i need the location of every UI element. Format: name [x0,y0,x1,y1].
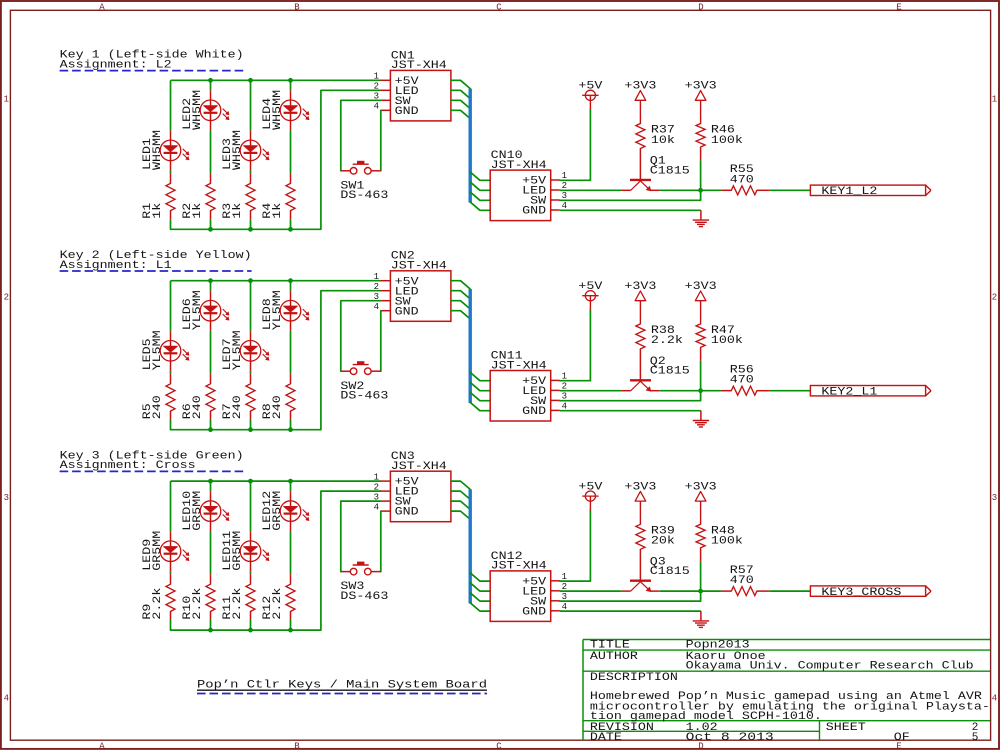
label LED1 WH5MM [142,130,164,170]
svg-text:GR5MM: GR5MM [152,531,164,571]
label R10 2.2k [182,587,204,619]
svg-text:3: 3 [992,493,997,503]
wire from bus [470,392,490,400]
svg-text:C: C [496,2,502,12]
svg-text:100k: 100k [711,335,743,347]
svg-text:YL5MM: YL5MM [192,290,204,330]
junction [698,589,703,594]
junction [288,278,293,283]
junction [288,479,293,484]
wire [170,481,172,531]
wire [770,590,811,592]
wire [210,481,212,491]
switch SW1 DS-463 [341,161,381,174]
label R2 1k [182,202,204,218]
wire [210,331,212,374]
svg-text:2.2k: 2.2k [152,587,164,619]
label R4 1k [262,202,284,218]
label SW1 DS-463 [340,180,388,202]
wire: +5V top rail [171,480,381,482]
label LED8 YL5MM [262,290,284,330]
frame column D [698,2,703,750]
label R47 100k [711,325,743,347]
svg-text:1: 1 [992,95,997,105]
wire to bus [451,491,470,499]
wire to bus [451,311,470,319]
wire from bus [470,182,490,190]
wire from bus [470,593,490,601]
wire from bus [470,603,490,611]
svg-text:JST-XH4: JST-XH4 [491,160,547,172]
title block outline [583,640,990,741]
wire: +5V top rail [171,280,381,282]
frame column B [294,2,300,750]
wire to bus [451,291,470,299]
wire [210,130,212,173]
wire: +5V [560,110,591,181]
wire [170,170,172,173]
wire [290,620,292,630]
supply +3V3 (collector pullup) [685,281,717,324]
supply +3V3 (base pullup) [624,81,656,124]
svg-text:YL5MM: YL5MM [152,330,164,370]
svg-text:1: 1 [4,95,9,105]
wire: SW net [341,100,381,171]
svg-text:2.2k: 2.2k [192,587,204,619]
label R56 470 [730,365,754,387]
wire: GND row [560,610,701,612]
wire from bus [470,573,490,581]
assignment dashed underline [60,470,244,472]
pin 2 [551,189,560,191]
svg-text:B: B [294,742,300,750]
wire: LED bottom rail [171,291,381,430]
wire: SW row [560,591,701,601]
junction [288,628,293,633]
label CN11 JST-XH4 [491,350,547,372]
pin 2 [551,590,560,592]
connector CN3 JST-XH4 [374,471,451,522]
wire: LED row [560,590,622,592]
svg-text:100k: 100k [711,536,743,548]
dashed underline [197,693,487,695]
wire: GND row [560,209,701,211]
switch SW3 DS-463 [341,562,381,575]
wire: output row [660,390,721,392]
junction [208,278,213,283]
svg-text:1: 1 [374,72,379,82]
label CN2 JST-XH4 [391,251,447,273]
pin 4 [381,510,391,512]
resistor R48 100k [696,524,705,561]
svg-text:Assignment: Cross: Assignment: Cross [60,460,196,472]
wire [250,219,252,229]
resistor R1 1k [166,173,175,219]
svg-text:240: 240 [192,395,204,419]
wire [290,481,292,491]
wire [170,80,172,130]
wire to bus [451,481,470,489]
svg-text:JST-XH4: JST-XH4 [391,461,447,473]
svg-text:100k: 100k [711,135,743,147]
label SW2 DS-463 [340,381,388,403]
svg-text:A: A [99,2,105,12]
svg-text:AUTHOR: AUTHOR [590,651,638,663]
svg-text:DATE: DATE [590,732,622,744]
wire: SW row [560,391,701,401]
resistor R56 470 (series output) [721,386,770,395]
label SW3 DS-463 [340,581,388,603]
svg-text:DESCRIPTION: DESCRIPTION [590,672,678,684]
pin 1 [381,79,391,81]
svg-text:2: 2 [374,482,379,492]
svg-text:4: 4 [992,694,997,704]
frame row 2 [4,293,998,303]
resistor R2 1k [206,173,215,219]
wire [700,561,702,591]
label LED12 GR5MM [262,491,284,531]
wire [290,130,292,173]
svg-text:B: B [294,2,300,12]
svg-text:5: 5 [972,732,979,744]
supply +5V [578,81,602,110]
svg-text:YL5MM: YL5MM [232,330,244,370]
resistor R46 100k [696,124,705,161]
resistor R39 20k [636,524,645,580]
LED LED11 [240,531,269,571]
junction [248,479,253,484]
wire: +5V top rail [171,79,381,81]
label R39 20k [651,525,675,547]
wire [250,371,252,374]
section header Key 3 (Left-side Green) [60,450,244,472]
wire: SW row [560,190,701,200]
supply +3V3 (collector pullup) [685,81,717,124]
wire [770,189,811,191]
resistor R38 2.2k [636,324,645,380]
svg-text:1: 1 [374,472,379,482]
label R9 2.2k [142,587,164,619]
LED LED9 [160,531,189,571]
frame column E [896,2,901,750]
wire [250,481,252,531]
wire [250,170,252,173]
wire [290,80,292,90]
pin 1 [381,480,391,482]
svg-text:E: E [896,2,901,12]
label Q2 C1815 [650,356,690,378]
label CN1 JST-XH4 [391,50,447,72]
label R11 2.2k [222,587,244,619]
pin 3 [551,199,560,201]
svg-text:WH5MM: WH5MM [272,90,284,130]
pin 3 [381,500,391,502]
pin 1 [551,179,560,181]
svg-text:KEY1_L2: KEY1_L2 [821,186,877,198]
svg-text:GR5MM: GR5MM [192,491,204,531]
LED LED2 [200,90,229,130]
svg-text:D: D [698,2,703,12]
junction [208,479,213,484]
wire [210,80,212,90]
pin 2 [381,89,391,91]
label R48 100k [711,525,743,547]
label LED3 WH5MM [222,130,244,170]
wire [290,531,292,574]
wire [210,219,212,229]
sheet title Pop'n Ctlr Keys / Main System Board [197,680,487,692]
svg-text:1k: 1k [272,202,284,218]
svg-text:4: 4 [4,694,9,704]
svg-text:DS-463: DS-463 [340,190,388,202]
svg-text:C1815: C1815 [650,566,690,578]
resistor R6 240 [206,374,215,420]
svg-text:1: 1 [374,272,379,282]
svg-text:1k: 1k [152,202,164,218]
LED LED12 [280,491,309,531]
svg-text:Popn2013: Popn2013 [686,640,750,652]
svg-text:2: 2 [992,293,997,303]
junction [248,427,253,432]
svg-text:4: 4 [374,102,379,112]
bus B3 [469,489,472,603]
svg-text:470: 470 [730,174,754,186]
wire from bus [470,583,490,591]
junction [208,78,213,83]
svg-text:GND: GND [395,306,419,318]
label R37 10k [651,125,675,147]
resistor R8 240 [286,374,295,420]
resistor R5 240 [166,374,175,420]
wire from bus [470,202,490,210]
wire [170,620,172,630]
svg-text:10k: 10k [651,135,675,147]
LED LED7 [240,331,269,371]
wire [210,620,212,630]
svg-text:JST-XH4: JST-XH4 [391,60,447,72]
wire: GND to switch [380,511,382,571]
wire from bus [470,402,490,410]
junction [248,628,253,633]
wire to bus [451,501,470,509]
wire [290,331,292,374]
wire: +5V [560,511,591,581]
pin 3 [381,300,391,302]
svg-text:WH5MM: WH5MM [152,130,164,170]
wire to bus [451,80,470,88]
junction [698,388,703,393]
svg-text:JST-XH4: JST-XH4 [491,360,547,372]
svg-text:DS-463: DS-463 [340,591,388,603]
wire [170,281,172,331]
wire to bus [451,100,470,108]
svg-text:GND: GND [522,206,546,218]
assignment dashed underline [60,70,244,72]
frame column A [99,2,105,750]
wire from bus [470,382,490,390]
resistor R47 100k [696,324,705,361]
svg-text:C1815: C1815 [650,366,690,378]
label Q1 C1815 [650,156,690,178]
svg-text:KEY2_L1: KEY2_L1 [821,386,877,398]
svg-text:GND: GND [395,507,419,519]
wire: GND row [560,410,701,412]
LED LED8 [280,291,309,331]
label R57 470 [730,565,754,587]
svg-text:20k: 20k [651,536,675,548]
svg-text:+5V: +5V [578,81,602,93]
wire [290,420,292,430]
svg-text:240: 240 [272,395,284,419]
connector CN11 JST-XH4 [490,371,567,422]
svg-text:GND: GND [522,606,546,618]
svg-text:3: 3 [4,493,9,503]
wire: output row [660,590,721,592]
wire [250,571,252,574]
wire [170,571,172,574]
label R46 100k [711,125,743,147]
label R7 240 [222,395,244,419]
resistor R11 2.2k [246,574,255,620]
svg-text:2.2k: 2.2k [232,587,244,619]
wire [250,420,252,430]
svg-text:240: 240 [232,395,244,419]
LED LED6 [200,291,229,331]
svg-text:GND: GND [395,106,419,118]
junction [288,78,293,83]
wire [170,219,172,229]
transistor Q1 C1815 [621,180,660,191]
svg-text:4: 4 [374,302,379,312]
label Q3 C1815 [650,556,690,578]
wire [770,390,811,392]
svg-text:WH5MM: WH5MM [232,130,244,170]
pin 3 [381,99,391,101]
label LED5 YL5MM [142,330,164,370]
wire [210,420,212,430]
section header Key 2 (Left-side Yellow) [60,250,252,272]
label R1 1k [142,202,164,218]
label LED7 YL5MM [222,330,244,370]
svg-text:+5V: +5V [578,281,602,293]
wire to bus [451,301,470,309]
pin 3 [551,399,560,401]
wire: SW net [341,501,381,571]
wire: LED bottom rail [171,90,381,229]
supply +3V3 (base pullup) [624,281,656,324]
svg-text:DS-463: DS-463 [340,390,388,402]
LED LED10 [200,491,229,531]
connector CN12 JST-XH4 [490,571,567,622]
label LED10 GR5MM [182,491,204,531]
svg-text:OF: OF [894,732,910,744]
label LED11 GR5MM [222,530,244,570]
net flag KEY3_CROSS [810,586,931,599]
svg-text:SHEET: SHEET [826,722,866,734]
junction [208,628,213,633]
svg-text:GND: GND [522,406,546,418]
svg-text:TITLE: TITLE [590,640,630,652]
wire to bus [451,110,470,118]
pin 1 [381,280,391,282]
junction [208,227,213,232]
svg-text:4: 4 [374,502,379,512]
wire [210,281,212,291]
wire from bus [470,172,490,180]
svg-text:2.2k: 2.2k [651,335,683,347]
wire [250,281,252,331]
svg-text:Assignment: L2: Assignment: L2 [60,59,172,71]
junction [248,78,253,83]
wire [250,80,252,130]
label CN3 JST-XH4 [391,451,447,473]
wire: GND to switch [380,110,382,171]
wire [170,420,172,430]
svg-text:240: 240 [152,395,164,419]
pin 2 [381,290,391,292]
wire to bus [451,281,470,289]
label R8 240 [262,395,284,419]
resistor R3 1k [246,173,255,219]
assignment dashed underline [60,270,252,272]
bus B1 [469,89,472,203]
label R5 240 [142,395,164,419]
section header Key 1 (Left-side White) [60,50,244,72]
supply +5V [578,281,602,310]
transistor Q3 C1815 [621,581,660,592]
label LED2 WH5MM [182,90,204,130]
label R12 2.2k [262,587,284,619]
wire: GND to switch [380,311,382,372]
LED LED5 [160,331,189,371]
junction [288,227,293,232]
pin 4 [551,209,560,211]
svg-text:1k: 1k [232,202,244,218]
wire: output row [660,189,721,191]
label CN10 JST-XH4 [491,150,547,172]
svg-text:C1815: C1815 [650,165,690,177]
supply +3V3 (collector pullup) [685,482,717,525]
pin 4 [381,310,391,312]
LED LED3 [240,130,269,170]
supply +3V3 (base pullup) [624,482,656,525]
junction [248,227,253,232]
svg-text:YL5MM: YL5MM [272,290,284,330]
label LED4 WH5MM [262,90,284,130]
frame column C [496,2,502,750]
svg-text:470: 470 [730,575,754,587]
wire to bus [451,511,470,519]
svg-text:KEY3_CROSS: KEY3_CROSS [821,587,901,599]
net flag KEY2_L1 [810,386,931,399]
svg-text:2: 2 [374,82,379,92]
svg-text:1k: 1k [192,202,204,218]
svg-text:A: A [99,742,105,750]
svg-text:Oct 8 2013: Oct 8 2013 [686,732,774,744]
resistor R37 10k [636,124,645,180]
connector CN1 JST-XH4 [374,70,451,121]
svg-text:+5V: +5V [578,482,602,494]
pin 4 [551,610,560,612]
net flag KEY1_L2 [810,185,931,198]
pin 1 [551,580,560,582]
wire [170,371,172,374]
wire: LED row [560,390,622,392]
resistor R55 470 (series output) [721,186,770,195]
svg-text:JST-XH4: JST-XH4 [391,261,447,273]
pin 1 [551,379,560,381]
svg-text:Assignment: L1: Assignment: L1 [60,260,172,272]
